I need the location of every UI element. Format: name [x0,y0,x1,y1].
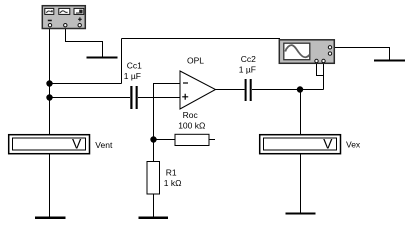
svg-text:Vex: Vex [346,139,361,149]
svg-text:OPL: OPL [187,55,204,65]
svg-text:Cc1: Cc1 [127,60,142,70]
svg-text:Vent: Vent [95,140,113,150]
svg-text:1 kΩ: 1 kΩ [164,178,182,188]
svg-text:Roc: Roc [183,110,199,120]
svg-text:1 µF: 1 µF [239,65,256,75]
svg-text:V: V [72,136,82,152]
svg-text:Cc2: Cc2 [241,54,256,64]
svg-text:R1: R1 [166,167,177,177]
svg-text:V: V [323,136,333,152]
svg-text:100 kΩ: 100 kΩ [178,120,205,130]
svg-text:1 µF: 1 µF [124,71,141,81]
